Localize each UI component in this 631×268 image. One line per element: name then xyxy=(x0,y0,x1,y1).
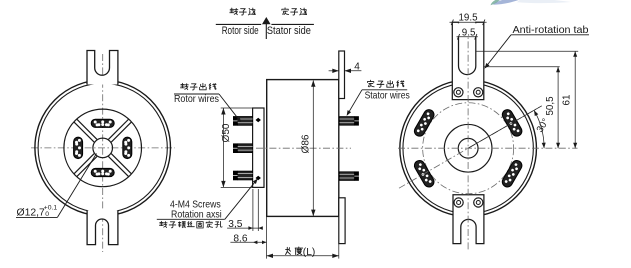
front view inner rim circle xyxy=(38,83,167,212)
dimension 50.5 line xyxy=(557,67,559,149)
dimension 61 extension line xyxy=(476,50,578,52)
side view flange bottom tab xyxy=(339,198,345,244)
front view outer circle (housing rim) xyxy=(35,80,171,216)
front view wire slot N xyxy=(91,119,114,127)
face view middle circle xyxy=(444,124,492,172)
front view diagonal spokes xyxy=(108,119,128,139)
bottom tab screw hole left xyxy=(454,198,463,207)
rotor screw hole bottom (M4) xyxy=(256,176,261,180)
leader to rotor wire bundle xyxy=(219,94,240,121)
face view wire slot upper-right xyxy=(500,108,523,138)
dimension 19.5 line xyxy=(450,21,487,23)
side view flange top tab (4mm) xyxy=(339,51,345,99)
svg-text:8.6: 8.6 xyxy=(233,233,247,244)
header boundary arrow xyxy=(262,17,271,24)
face view wire slot lower-right xyxy=(500,159,523,189)
face view top anti-rotation tab xyxy=(452,22,484,99)
svg-text:Rotor side: Rotor side xyxy=(222,25,259,37)
length label xyxy=(286,247,291,254)
dimension d86 line xyxy=(312,81,314,216)
face view 30deg centerline xyxy=(399,107,540,188)
front view wire slot W xyxy=(74,137,83,159)
rotor screw hole top (M4) xyxy=(256,118,261,122)
front view top anti-rotation tab xyxy=(87,51,118,85)
header text stator side xyxy=(282,8,289,15)
dimension 8.6 line xyxy=(230,241,266,243)
svg-text:19.5: 19.5 xyxy=(458,12,478,23)
length dimension extension lines xyxy=(266,216,268,258)
leader to anti-rotation tab xyxy=(485,35,511,68)
dimension 3.5 line xyxy=(227,227,260,229)
header separator line rotor/stator xyxy=(216,23,261,25)
top tab screw hole left xyxy=(454,88,463,97)
whiteout behind 9.5 label xyxy=(457,23,477,36)
svg-text:Rotor wires: Rotor wires xyxy=(174,94,219,105)
faint watermark swoosh top right xyxy=(491,0,572,5)
stator wire bundle top xyxy=(340,117,355,126)
face view wire slot lower-left xyxy=(413,159,436,189)
front view wire slot E xyxy=(123,137,132,159)
front view center bore circle (d12.7) xyxy=(93,138,113,158)
leader to stator wire bundle xyxy=(348,90,363,115)
svg-text:61: 61 xyxy=(561,95,572,106)
label stator wires xyxy=(367,80,374,87)
dimension d50 extension lines xyxy=(221,107,253,109)
top tab screw hole right xyxy=(474,88,483,97)
stator wire bundle bottom xyxy=(340,172,355,181)
front view: horizontal centerline xyxy=(31,147,175,149)
dimension 3.5 extension lines xyxy=(252,189,254,231)
svg-text:Ø12,7: Ø12,7 xyxy=(17,208,46,219)
dimension 61 line xyxy=(574,51,576,148)
svg-text:0: 0 xyxy=(45,211,49,218)
length dimension line xyxy=(267,255,339,257)
front view: vertical centerline xyxy=(102,54,104,252)
svg-text:Ø50: Ø50 xyxy=(221,123,232,142)
rotor wire bundle top xyxy=(238,117,253,126)
front view bottom anti-rotation tab xyxy=(87,211,118,245)
face view vertical centerline xyxy=(467,28,469,250)
svg-text:Stator wires: Stator wires xyxy=(365,90,410,101)
svg-text:4: 4 xyxy=(354,61,360,72)
svg-text:9.5: 9.5 xyxy=(462,27,476,38)
30deg solid ray xyxy=(468,106,542,148)
face view bottom anti-rotation tab xyxy=(453,195,484,244)
leader line for bore diameter xyxy=(57,154,96,218)
side view stator body rectangle (d86) xyxy=(267,80,339,217)
front view rotor ring circle (d50) xyxy=(64,109,142,187)
30deg dimension arc xyxy=(534,110,544,148)
header text rotor side xyxy=(230,8,238,15)
svg-text:3,5: 3,5 xyxy=(228,219,242,230)
face view center bore xyxy=(458,138,478,158)
face view inner rim circle xyxy=(403,83,533,213)
front view wire slot S xyxy=(91,168,114,176)
rotor wire bundle middle xyxy=(238,144,253,153)
face view wire slot upper-left xyxy=(413,108,436,138)
dimension 50.5 extension line xyxy=(484,66,560,68)
side view rotor plate xyxy=(253,108,264,187)
svg-text:Ø86: Ø86 xyxy=(301,134,312,153)
label rotor wires xyxy=(181,83,189,89)
face view outer circle xyxy=(400,80,537,217)
dimension 4 line xyxy=(329,70,339,72)
side view horizontal centerline xyxy=(256,147,351,149)
dimension d50 line xyxy=(222,108,224,187)
svg-text:Stator side: Stator side xyxy=(267,25,311,37)
svg-text:50,5: 50,5 xyxy=(545,96,556,116)
bottom tab screw hole right xyxy=(474,198,483,207)
dimension 9.5 line xyxy=(457,36,478,38)
leader to rotor screw hole xyxy=(225,180,257,220)
face view bolt circle (centerline) xyxy=(423,103,514,194)
rotor wire bundle bottom xyxy=(238,171,253,180)
face view horizontal centerline xyxy=(398,147,578,149)
svg-text:(L): (L) xyxy=(303,247,315,258)
